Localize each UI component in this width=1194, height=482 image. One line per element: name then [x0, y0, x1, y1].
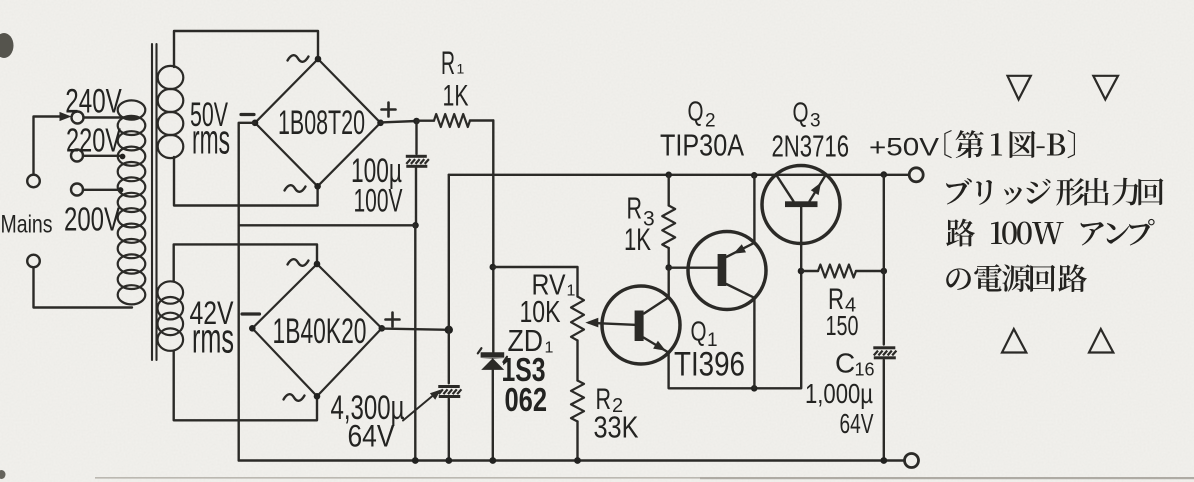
svg-text:16: 16 — [855, 360, 875, 380]
svg-text:64V: 64V — [348, 418, 395, 454]
svg-text:1B40K20: 1B40K20 — [273, 311, 367, 351]
svg-text:1B08T20: 1B08T20 — [278, 104, 365, 142]
svg-text:TI396: TI396 — [674, 345, 745, 383]
svg-text:C: C — [835, 348, 855, 379]
svg-text:R: R — [441, 45, 455, 81]
svg-text:rms: rms — [192, 315, 234, 362]
svg-text:Q: Q — [793, 97, 809, 128]
svg-text:1K: 1K — [443, 80, 469, 113]
svg-text:1: 1 — [457, 61, 465, 77]
svg-text:1,000µ: 1,000µ — [805, 378, 873, 409]
svg-text:1K: 1K — [624, 221, 651, 257]
svg-text:rms: rms — [192, 116, 230, 163]
svg-text:64V: 64V — [840, 408, 874, 439]
svg-text:100V: 100V — [354, 183, 403, 219]
svg-text:1: 1 — [545, 340, 554, 357]
svg-text:2N3716: 2N3716 — [772, 129, 850, 164]
svg-text:+50V: +50V — [869, 133, 939, 161]
svg-text:TIP30A: TIP30A — [660, 128, 744, 163]
svg-text:Q: Q — [688, 96, 704, 127]
svg-text:062: 062 — [505, 381, 548, 418]
svg-text:240V: 240V — [65, 82, 122, 120]
svg-text:Mains: Mains — [1, 211, 53, 239]
svg-text:1: 1 — [567, 283, 576, 300]
svg-text:150: 150 — [826, 310, 859, 341]
svg-text:33K: 33K — [594, 411, 639, 445]
svg-text:200V: 200V — [64, 201, 120, 238]
svg-text:Q: Q — [691, 316, 707, 347]
svg-text:220V: 220V — [66, 122, 121, 159]
